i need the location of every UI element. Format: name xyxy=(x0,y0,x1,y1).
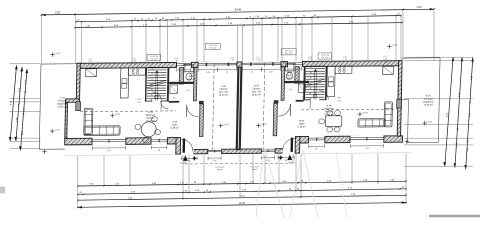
level marker cross xyxy=(219,125,223,127)
svg-text:1.26: 1.26 xyxy=(132,60,136,62)
door arc bedroom1 xyxy=(187,105,199,117)
interior wall wc bottom right xyxy=(281,81,309,84)
left dimension line 3 xyxy=(21,69,28,151)
svg-text:24.43: 24.43 xyxy=(239,203,245,205)
top wall window bedroom 2 xyxy=(242,61,280,68)
label hall left xyxy=(171,121,179,130)
level marker cross xyxy=(42,151,46,153)
lintel label box xyxy=(205,43,220,49)
window dimension ticks xyxy=(241,68,243,72)
bottom-right window 310.5-326 xyxy=(309,136,325,144)
door arc bedroom2 xyxy=(278,104,290,116)
level marker cross xyxy=(405,141,409,143)
level marker cross xyxy=(110,114,114,116)
top dimension row 3 xyxy=(75,23,402,28)
wc fixtures right unit xyxy=(285,63,294,79)
bottom-left window 94-127 xyxy=(92,137,125,145)
interior wall bedroom2 upper right xyxy=(281,67,285,101)
svg-text:2.55: 2.55 xyxy=(55,11,60,14)
bottom wall right section xyxy=(299,136,402,143)
entrance arrow right xyxy=(287,154,292,160)
staircase right unit xyxy=(305,66,326,99)
central party wall xyxy=(236,67,240,150)
svg-text:16.25 m²: 16.25 m² xyxy=(252,93,262,96)
scan artifact: left margin blob xyxy=(0,187,5,194)
bottom dimension row B xyxy=(78,189,406,195)
level marker cross xyxy=(50,54,54,56)
left exterior wall upper xyxy=(76,63,80,102)
label terrace left xyxy=(57,96,68,108)
lintel label box xyxy=(281,49,296,55)
svg-text:platten: platten xyxy=(217,168,223,171)
window dimension ticks xyxy=(197,68,199,72)
label hall right xyxy=(298,120,306,129)
label living right xyxy=(324,104,334,116)
top exterior wall xyxy=(77,61,402,69)
svg-text:2.40: 2.40 xyxy=(91,64,95,66)
svg-text:1.26: 1.26 xyxy=(383,58,387,60)
svg-text:Eingang: Eingang xyxy=(180,163,187,165)
plinth line right section xyxy=(299,152,411,155)
svg-text:OK 1.12: OK 1.12 xyxy=(321,57,328,59)
window dimension ticks xyxy=(91,146,93,150)
window dimension ticks xyxy=(176,68,178,72)
left dimension line 2 xyxy=(16,67,22,141)
svg-text:1.26: 1.26 xyxy=(343,59,347,61)
level marker cross xyxy=(358,113,362,115)
svg-text:platten: platten xyxy=(252,168,258,171)
entrance marker diamond right xyxy=(278,155,283,160)
extension lines bottom xyxy=(77,156,79,206)
top dimension row 2 xyxy=(76,16,401,22)
left exterior wall lower xyxy=(65,102,68,138)
svg-text:1.26: 1.26 xyxy=(88,61,92,63)
bottom-right window 352-385 xyxy=(350,135,383,143)
scan artifact: bottom-right streak xyxy=(429,215,480,217)
right dimension line 3 xyxy=(466,58,473,170)
step wall right xyxy=(295,137,300,154)
hall top wall right xyxy=(296,100,304,102)
svg-text:1.26: 1.26 xyxy=(308,59,312,61)
top wall window bedroom 1 xyxy=(198,61,236,68)
interior wall kitchen/stair right xyxy=(325,66,327,100)
interior wall stair/hall left xyxy=(167,68,170,102)
window dimension ticks xyxy=(261,156,263,160)
svg-text:OK 1.12: OK 1.12 xyxy=(285,53,292,55)
right bay thin outline xyxy=(401,98,408,100)
svg-text:15.06 m²: 15.06 m² xyxy=(57,105,67,108)
svg-text:40.42 m²: 40.42 m² xyxy=(324,113,334,116)
radiator left xyxy=(76,102,81,111)
plinth line left section xyxy=(64,154,176,157)
window dimension ticks xyxy=(207,156,209,160)
vertical dim arrowheads xyxy=(15,65,18,69)
sofa right unit xyxy=(358,102,393,127)
window dimension ticks xyxy=(308,145,310,149)
window dimension ticks xyxy=(287,67,289,71)
label living left xyxy=(146,111,156,123)
level marker cross xyxy=(257,124,261,126)
right dimension line 2 xyxy=(455,57,462,167)
entrance door arc left xyxy=(181,139,193,151)
svg-text:1.26: 1.26 xyxy=(174,60,178,62)
dashed ceiling line living left xyxy=(80,110,176,113)
step wall left xyxy=(176,138,181,155)
svg-text:Eingang: Eingang xyxy=(288,162,295,164)
bottom wall left section xyxy=(65,138,177,145)
bottom wall middle section xyxy=(180,149,295,154)
svg-text:5.48 m²: 5.48 m² xyxy=(171,127,179,130)
dashed ceiling line living right xyxy=(301,108,397,111)
dining table left unit (round) xyxy=(135,117,161,143)
window dimension ticks xyxy=(277,156,279,160)
terrace right outline xyxy=(402,57,441,59)
dashed terrace line middle xyxy=(185,162,293,165)
wc fixtures left unit xyxy=(185,64,194,80)
svg-text:24.40: 24.40 xyxy=(235,8,242,12)
bottom-left window 153-168.5 xyxy=(151,137,167,145)
label storage left xyxy=(187,72,195,81)
svg-text:40.42 m²: 40.42 m² xyxy=(146,120,156,123)
dining table right unit (rect) xyxy=(318,110,342,132)
window dimension ticks xyxy=(260,68,262,72)
svg-text:16.25 m²: 16.25 m² xyxy=(219,94,229,97)
lintel label box xyxy=(147,54,161,60)
label bedroom 1 xyxy=(219,85,229,97)
right exterior wall xyxy=(397,61,402,137)
extension lines top xyxy=(41,15,43,63)
entrance door arc right xyxy=(283,138,295,150)
window dimension ticks xyxy=(349,144,351,148)
block at top wall right unit xyxy=(383,66,394,74)
label terrace right xyxy=(423,95,434,107)
svg-text:2.40: 2.40 xyxy=(384,62,388,64)
entrance arrow left xyxy=(183,155,188,161)
window dimension ticks xyxy=(216,68,218,72)
level marker cross xyxy=(423,122,427,124)
interior wall bedroom1 lower left xyxy=(199,101,204,104)
middle wall window 210-223 xyxy=(208,149,221,155)
top wall window 288-302 xyxy=(288,61,302,67)
door arc stair-living left xyxy=(152,92,161,101)
level marker cross xyxy=(387,45,391,47)
window dimension ticks xyxy=(150,146,152,150)
scan artifact: fold curves xyxy=(256,148,265,218)
door arc hall left xyxy=(161,101,169,109)
interior wall hall/wc left xyxy=(179,68,184,85)
stair bottom wall left xyxy=(145,100,152,102)
wardrobe right unit xyxy=(298,84,305,92)
lintel label box xyxy=(318,53,332,59)
svg-text:14.50: 14.50 xyxy=(239,196,245,198)
bottom dimension row D xyxy=(78,203,406,208)
svg-text:OK 1.12: OK 1.12 xyxy=(209,47,216,49)
interior wall kitchen/stair left xyxy=(145,68,147,102)
bottom dimension row A xyxy=(78,181,406,186)
entrance marker diamond left xyxy=(192,156,197,161)
label storage right xyxy=(285,71,293,80)
extension lines left xyxy=(10,62,41,64)
interior wall wc bottom left xyxy=(169,82,197,85)
radiator right xyxy=(397,99,402,108)
interior wall hall/wc right xyxy=(295,67,300,84)
interior wall bedroom1 upper left xyxy=(193,67,197,101)
terrace left outline xyxy=(41,63,77,65)
dashed section line bedroom2 xyxy=(263,63,265,150)
hall top wall left xyxy=(169,101,180,103)
svg-text:1.26: 1.26 xyxy=(256,59,260,61)
door arc stair-living right xyxy=(319,91,328,100)
svg-text:2.60 m²: 2.60 m² xyxy=(187,78,195,81)
interior wall bedroom2 lower right xyxy=(274,100,279,103)
stair bottom wall right xyxy=(303,99,310,101)
middle wall window 263.5-276.5 xyxy=(262,148,275,154)
dashed section line bedroom1 xyxy=(212,63,214,150)
extension lines right xyxy=(404,56,473,58)
sofa left unit xyxy=(84,108,121,135)
left bay connector wall xyxy=(66,99,80,102)
left dimension line 1 xyxy=(10,65,16,141)
level marker cross xyxy=(50,130,54,132)
svg-text:2.60 m²: 2.60 m² xyxy=(285,77,293,80)
wardrobe left unit xyxy=(170,85,178,93)
bottom dimension row C xyxy=(78,195,406,200)
window dimension ticks xyxy=(181,157,183,161)
top dimension row 1 xyxy=(42,9,435,15)
staircase left unit xyxy=(146,67,167,100)
top wall window 177-191 xyxy=(177,62,191,68)
svg-text:1.50: 1.50 xyxy=(417,6,422,9)
kitchen right unit xyxy=(327,66,352,96)
svg-text:OK 1.12: OK 1.12 xyxy=(150,58,157,60)
label bedroom 2 xyxy=(252,84,262,96)
interior wall stair/hall right xyxy=(303,67,306,101)
right dimension line 1 xyxy=(445,57,453,166)
kitchen left unit xyxy=(120,68,145,98)
svg-text:1.26: 1.26 xyxy=(230,60,234,62)
svg-text:15.30 m²: 15.30 m² xyxy=(423,104,433,107)
block at top wall left unit xyxy=(86,69,97,77)
svg-text:5.48 m²: 5.48 m² xyxy=(298,126,306,129)
